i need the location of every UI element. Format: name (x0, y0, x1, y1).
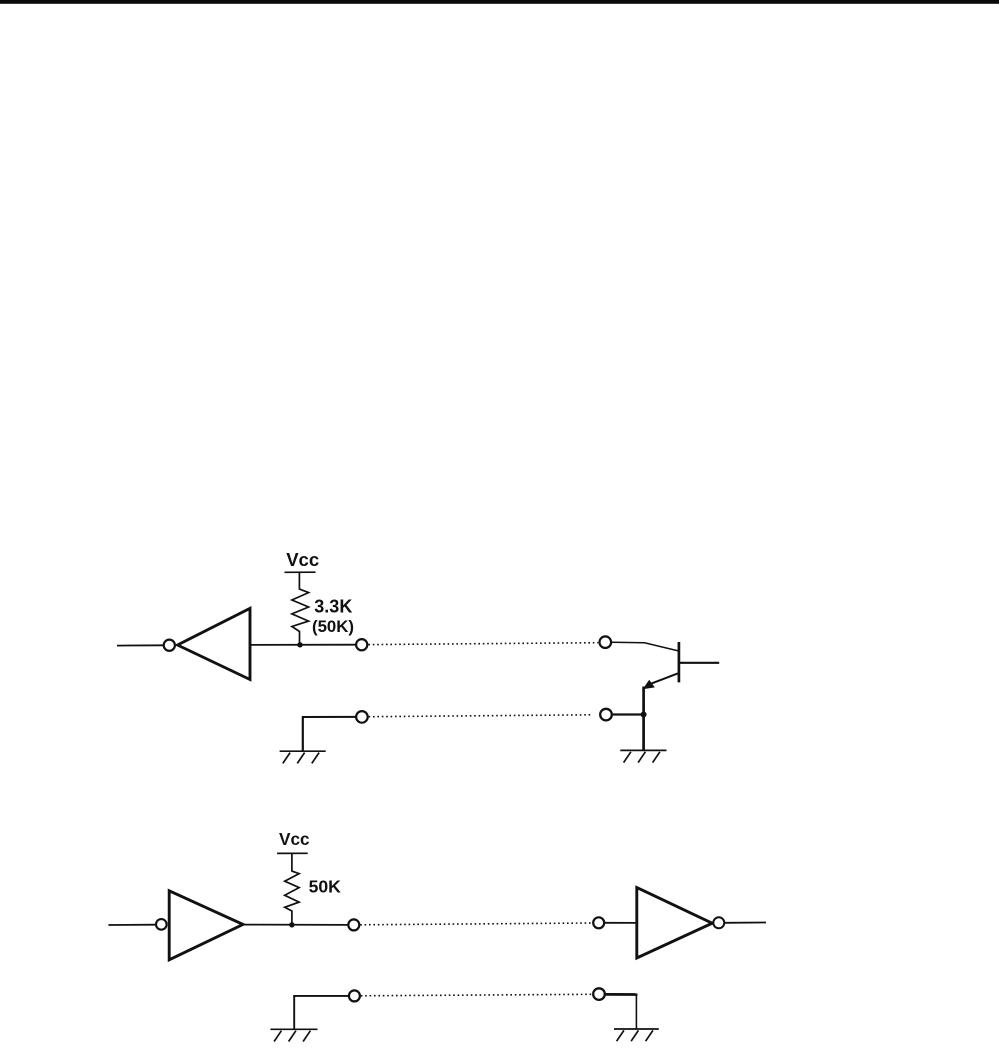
wire: dotted cable line 4 (361, 994, 593, 996)
pin P3-2 (open circle) (349, 990, 360, 1001)
wire: left ground stem (circuit 2) (293, 995, 295, 1029)
ground (right, circuit 2) (614, 1029, 659, 1041)
node: buffer U3 output bubble (713, 917, 724, 928)
ground (left, circuit 1) (280, 751, 326, 763)
junction node at resistor R1 bottom (297, 642, 302, 647)
pin P2-1 (open circle) (600, 636, 612, 648)
top border bar (0, 0, 999, 4)
wire: pin P1-2 to left ground stem (302, 716, 356, 718)
wire: pin to buffer U3 input (605, 922, 637, 924)
wire: U1 input to pull-up node (250, 644, 355, 646)
ground (right, circuit 1) (620, 750, 666, 762)
transistor Q1 emitter lead (649, 673, 678, 684)
wire: right ground stem (circuit 2) (635, 995, 637, 1030)
svg-text:Vcc: Vcc (286, 549, 319, 570)
pin P4-1 (open circle) (593, 917, 604, 928)
inverter U1 (left-pointing triangle) (178, 608, 251, 679)
svg-text:Vcc: Vcc (279, 829, 310, 849)
wire: emitter to ground stem (right) (642, 687, 645, 751)
pin P1-2 (open circle) (356, 711, 368, 723)
wire: pin P4-2 to right ground stem (606, 993, 638, 996)
pin P3-1 (open circle) (348, 919, 359, 930)
svg-text:50K: 50K (309, 876, 342, 896)
wire: dotted cable line 2 (369, 715, 593, 717)
pin P1-1 (open circle) (356, 639, 367, 650)
transistor Q1 base bar (678, 642, 681, 682)
wire: left ground stem (circuit 1) (302, 716, 304, 751)
wire: ground to pin P3-2 (293, 995, 348, 997)
wire: pin to transistor Q1 collector (612, 642, 679, 651)
node: buffer U2 input bubble (156, 919, 167, 930)
wire: inverter U1 output lead (left) (117, 644, 163, 646)
wire: dotted cable line 3 (360, 923, 592, 925)
junction node emitter/ground return (641, 712, 647, 718)
wire: U3 output lead (right) (725, 922, 766, 924)
junction node at resistor R2 bottom (289, 922, 294, 927)
resistor R2 zigzag (285, 853, 299, 925)
Vcc rail bar (circuit 1) (285, 571, 316, 573)
node: inverter U1 output bubble (164, 640, 175, 651)
Vcc rail bar (circuit 2) (277, 852, 308, 854)
pin P4-2 (open circle) (593, 988, 605, 1000)
svg-text:(50K): (50K) (312, 617, 354, 636)
pin P2-2 (open circle) (600, 709, 612, 721)
wire: dotted cable line 1 (368, 643, 598, 645)
wire: input lead to buffer U2 (108, 924, 155, 926)
transistor Q1 emitter arrowhead (643, 680, 655, 689)
wire: U2 output to pull-up node (243, 924, 348, 926)
buffer U2 (right-pointing triangle) (169, 891, 243, 960)
wire: ground return to pin P2-2 (613, 713, 644, 715)
svg-text:3.3K: 3.3K (314, 596, 352, 616)
ground (left, circuit 2) (270, 1029, 317, 1041)
resistor R1 zigzag (292, 572, 309, 645)
buffer U3 (right-pointing triangle) (637, 888, 712, 959)
wire: Q1 base lead (679, 662, 719, 664)
